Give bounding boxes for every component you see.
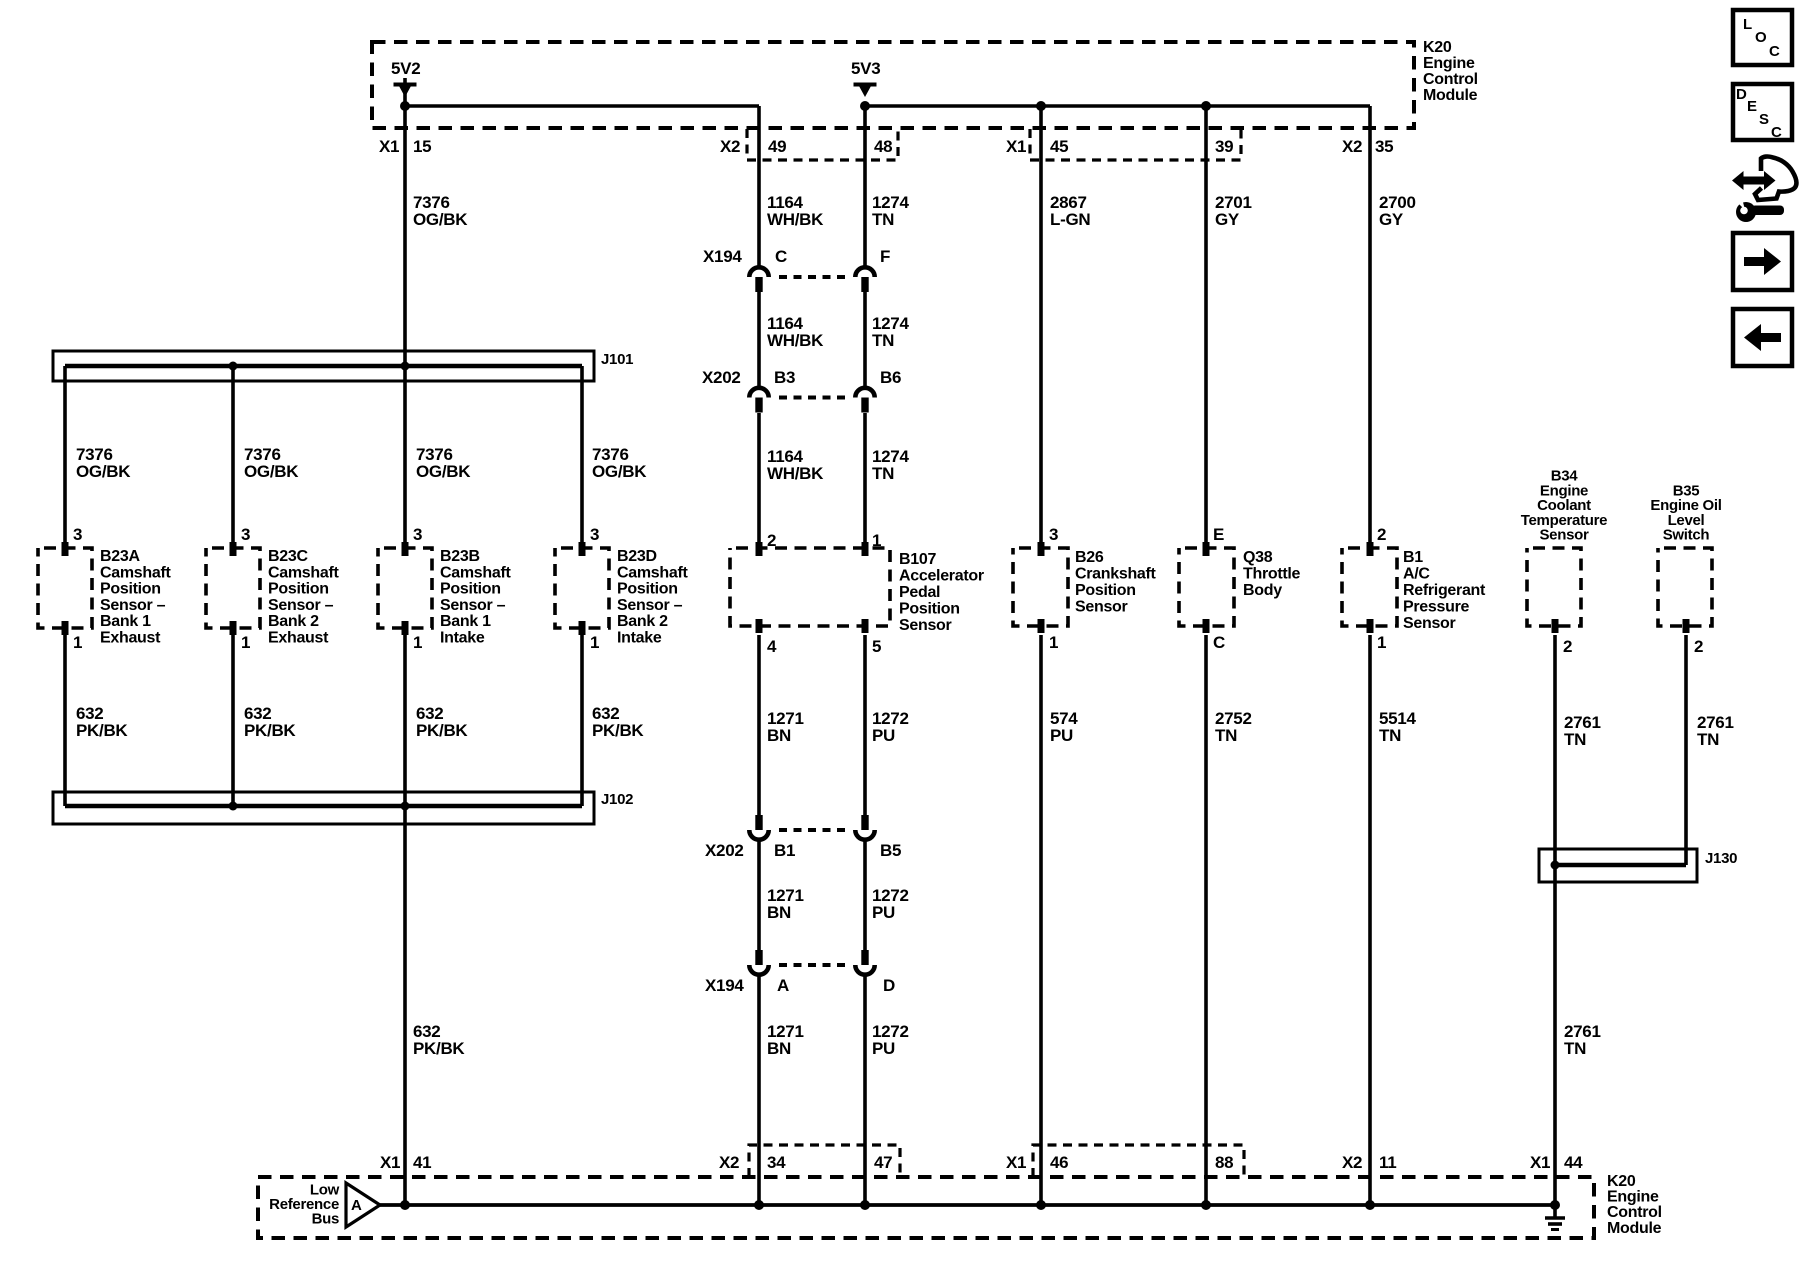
svg-text:PU: PU [1050,726,1073,745]
camshaft position sensor B23C [206,548,260,628]
engine oil level switch B35 [1658,548,1712,626]
5V3 reference supply symbol [854,85,877,98]
splice J130 [1539,849,1697,882]
splice pack J101 [53,351,594,381]
svg-text:BN: BN [767,903,791,922]
wire 2700 GY pin35 to B1 [1368,106,1372,542]
svg-text:B5: B5 [880,841,901,860]
wire label 1271 BN (2) [767,886,804,922]
icon box DESC [1733,84,1792,141]
svg-text:Position: Position [1075,582,1136,599]
label B23D [617,548,688,647]
wire label 1271 BN (3) [767,1022,804,1058]
wire 5V2 bus to pin 49 [405,104,759,108]
svg-text:2: 2 [1694,637,1703,656]
wire 1274 TN X202-B6 to B107 pin1 [863,413,867,542]
svg-text:X1: X1 [379,137,399,156]
svg-text:88: 88 [1215,1153,1233,1172]
wire label 1164 WH/BK (2) [767,314,824,350]
wire 574 PU B26 to pin46 [1039,635,1043,1205]
junction bus x=759 [754,1200,764,1210]
svg-text:X2: X2 [1342,137,1362,156]
label K20 Engine Control Module (bottom) [1607,1173,1662,1237]
svg-text:A: A [351,1197,362,1214]
svg-text:X2: X2 [720,137,740,156]
svg-text:K20: K20 [1607,1173,1636,1190]
ECM module K20 bottom dashed box [258,1177,1594,1238]
wire label 632 PK/BK col x=416 [416,704,468,740]
svg-text:B1: B1 [1403,549,1423,566]
junction 5V2/pin15 [400,101,410,111]
wire 1271 BN B107 pin4 to X202-B1 [757,635,761,815]
camshaft position sensor B23B [378,548,432,628]
svg-text:1: 1 [590,633,599,652]
svg-text:C: C [1771,124,1782,141]
svg-text:Sensor: Sensor [899,617,952,634]
svg-text:Sensor –: Sensor – [617,597,683,614]
svg-text:Pressure: Pressure [1403,599,1469,616]
svg-text:39: 39 [1215,137,1233,156]
inline connector X194 pin A [749,950,768,975]
wire label 7376 OG/BK col x=416 [416,445,471,481]
svg-text:X1: X1 [1006,137,1026,156]
wire label 574 PU [1050,709,1078,745]
svg-text:45: 45 [1050,137,1068,156]
wire label 1164 WH/BK (1) [767,193,824,229]
svg-text:OG/BK: OG/BK [76,462,131,481]
wire 1274 TN pin48 to X194-F [863,106,867,266]
svg-text:Sensor –: Sensor – [440,597,506,614]
label B26 [1075,549,1157,616]
svg-text:Accelerator: Accelerator [899,568,984,585]
svg-text:Sensor –: Sensor – [268,597,334,614]
svg-text:4: 4 [767,637,777,656]
wire label 632 PK/BK col x=244 [244,704,296,740]
wire label 1274 TN (1) [872,193,909,229]
svg-text:Intake: Intake [440,630,485,647]
svg-text:B23D: B23D [617,548,657,565]
svg-text:1: 1 [1049,633,1058,652]
svg-text:B23B: B23B [440,548,480,565]
svg-text:PK/BK: PK/BK [592,721,644,740]
connector pocket X2 pins 49-48 (top) [747,129,898,160]
wire 2701 GY pin39 to Q38 [1204,106,1208,542]
svg-text:5V3: 5V3 [851,59,880,78]
wire label 7376 OG/BK col x=76 [76,445,131,481]
A/C refrigerant pressure sensor B1 [1342,548,1397,626]
svg-text:S: S [1759,111,1769,128]
svg-text:Engine: Engine [1607,1189,1659,1206]
svg-text:TN: TN [1564,730,1586,749]
svg-text:Engine: Engine [1423,55,1475,72]
svg-text:Position: Position [100,581,161,598]
wire label 2700 GY [1379,193,1416,229]
svg-text:3: 3 [590,525,599,544]
ECM module K20 top dashed box [372,42,1414,128]
svg-text:B107: B107 [899,551,936,568]
junction J102/B23C wire [229,802,238,811]
svg-text:D: D [883,976,895,995]
svg-text:OG/BK: OG/BK [592,462,647,481]
svg-text:Position: Position [440,581,501,598]
svg-text:1: 1 [73,633,82,652]
svg-text:Camshaft: Camshaft [268,564,339,581]
svg-text:PK/BK: PK/BK [76,721,128,740]
junction bus x=1555 [1550,1200,1560,1210]
label Q38 [1243,549,1301,599]
svg-text:Position: Position [617,581,678,598]
svg-text:WH/BK: WH/BK [767,210,824,229]
svg-text:E: E [1213,525,1224,544]
icon box LOC [1733,10,1792,65]
svg-text:44: 44 [1564,1153,1583,1172]
svg-text:PU: PU [872,1039,895,1058]
svg-text:TN: TN [1215,726,1237,745]
junction J102/B23B wire [401,802,410,811]
svg-text:J130: J130 [1705,850,1737,867]
label K20 Engine Control Module (top) [1423,39,1478,104]
svg-text:J102: J102 [601,791,633,808]
junction bus x=1041 [1036,1200,1046,1210]
svg-text:Switch: Switch [1663,527,1710,544]
svg-text:TN: TN [872,210,894,229]
svg-text:WH/BK: WH/BK [767,331,824,350]
svg-text:K20: K20 [1423,39,1452,56]
wire 2752 TN Q38 to pin88 [1204,635,1208,1205]
svg-text:GY: GY [1379,210,1404,229]
wire 2761 TN B34 to J130 to pin44 [1553,635,1557,1205]
inline connector X202 pin B1 [749,815,768,840]
wire label 632 PK/BK col x=592 [592,704,644,740]
svg-text:TN: TN [1379,726,1401,745]
wire 1164 WH/BK X194-C to X202-B3 [757,292,761,387]
svg-text:OG/BK: OG/BK [416,462,471,481]
svg-text:O: O [1755,29,1767,46]
svg-text:A/C: A/C [1403,566,1430,583]
wire 1274 TN X194-F to X202-B6 [863,292,867,387]
wire label 1272 PU (3) [872,1022,909,1058]
svg-text:Bank 1: Bank 1 [100,613,151,630]
wire 7376 OG/BK J101 to B23D [580,366,584,542]
svg-text:3: 3 [1049,525,1058,544]
svg-text:Control: Control [1607,1204,1662,1221]
svg-text:X194: X194 [703,247,742,266]
svg-text:OG/BK: OG/BK [244,462,299,481]
junction bus x=1370 [1365,1200,1375,1210]
svg-text:1: 1 [872,531,881,550]
svg-text:Sensor –: Sensor – [100,597,166,614]
svg-text:X202: X202 [702,368,741,387]
wire label 1164 WH/BK (3) [767,447,824,483]
inline connector X202 pin B3 [749,388,768,413]
svg-text:Exhaust: Exhaust [268,630,329,647]
svg-text:X194: X194 [705,976,744,995]
svg-text:5V2: 5V2 [391,59,420,78]
low reference bus node A triangle [346,1183,380,1227]
svg-text:Module: Module [1423,87,1478,104]
svg-text:B6: B6 [880,368,901,387]
icon box forward arrow [1733,233,1792,290]
svg-text:X202: X202 [705,841,744,860]
svg-text:F: F [880,247,890,266]
svg-text:B26: B26 [1075,549,1104,566]
svg-text:1: 1 [241,633,250,652]
svg-text:B23A: B23A [100,548,140,565]
junction bus x=405 [400,1200,410,1210]
wire 7376 OG/BK J101 to B23A [63,366,67,542]
svg-text:Position: Position [268,581,329,598]
junction 5V3/pin48 [860,101,870,111]
svg-text:Refrigerant: Refrigerant [1403,582,1486,599]
wire label 2761 TN (J130 out) [1564,1022,1601,1058]
label B34 [1521,468,1607,544]
svg-text:TN: TN [872,331,894,350]
wire label 7376 OG/BK col x=244 [244,445,299,481]
svg-text:3: 3 [73,525,82,544]
svg-text:PK/BK: PK/BK [244,721,296,740]
svg-text:Module: Module [1607,1220,1662,1237]
inline connector X202 pin B5 [855,815,874,840]
connector pocket X1 pins 46-88 (bottom) [1033,1145,1244,1177]
svg-text:D: D [1736,86,1747,103]
junction J130/B34 wire [1551,861,1560,870]
svg-text:Body: Body [1243,582,1282,599]
wire 1164 WH/BK X202-B3 to B107 pin2 [757,413,761,542]
svg-text:X1: X1 [1006,1153,1026,1172]
wire 5V3 bus to pins 45/39/35 [865,104,1370,108]
svg-text:X2: X2 [1342,1153,1362,1172]
svg-text:Bus: Bus [312,1211,339,1228]
wire label 2867 L-GN [1050,193,1090,229]
svg-text:TN: TN [872,464,894,483]
inline connector X194 pin D [855,950,874,975]
wire 632 PK/BK B23B to J102 to pin41 [403,635,407,1205]
wire 1272 PU X202-B5 to X194-D [863,842,867,951]
wire 2867 L-GN pin45 to B26 [1039,106,1043,542]
wire label 1272 PU (1) [872,709,909,745]
svg-text:41: 41 [413,1153,431,1172]
svg-text:47: 47 [874,1153,892,1172]
svg-text:Camshaft: Camshaft [440,564,511,581]
wire label 2761 TN (B34) [1564,713,1601,749]
camshaft position sensor B23A [38,548,92,628]
svg-text:Sensor: Sensor [1403,615,1456,632]
svg-text:Sensor: Sensor [1075,599,1128,616]
wire 7376 OG/BK J101 to B23C [231,366,235,542]
wire 1271 BN X202-B1 to X194-A [757,842,761,951]
wire label 1274 TN (3) [872,447,909,483]
svg-text:Control: Control [1423,71,1478,88]
svg-text:11: 11 [1379,1153,1396,1172]
svg-text:Q38: Q38 [1243,549,1273,566]
pin labels ECM top row [379,137,1393,156]
svg-text:TN: TN [1564,1039,1586,1058]
label B1 [1403,549,1486,632]
svg-text:5: 5 [872,637,881,656]
svg-text:2: 2 [1563,637,1572,656]
crankshaft position sensor B26 [1013,548,1068,626]
connector link dash X194 A-D [779,963,851,967]
svg-text:X1: X1 [380,1153,400,1172]
svg-text:Pedal: Pedal [899,584,940,601]
svg-text:Intake: Intake [617,630,662,647]
junction pin39 [1201,101,1211,111]
svg-text:A: A [777,976,789,995]
wire label 2761 TN (B35) [1697,713,1734,749]
junction J101/B23C wire [229,362,238,371]
svg-text:Throttle: Throttle [1243,566,1301,583]
wire label 1274 TN (2) [872,314,909,350]
svg-text:PU: PU [872,903,895,922]
connector pocket X2 pins 34-47 (bottom) [749,1145,900,1177]
svg-text:PK/BK: PK/BK [416,721,468,740]
svg-text:1: 1 [1377,633,1386,652]
svg-text:X1: X1 [1530,1153,1550,1172]
svg-text:J101: J101 [601,351,633,368]
engine coolant temperature sensor B34 [1527,548,1581,626]
svg-text:B3: B3 [774,368,795,387]
wire 2761 TN B35 to J130 [1684,635,1688,865]
svg-text:49: 49 [768,137,786,156]
svg-text:Sensor: Sensor [1539,527,1589,544]
junction bus x=865 [860,1200,870,1210]
wire label 7376 OG/BK col x=592 [592,445,647,481]
junction bus x=1206 [1201,1200,1211,1210]
inline connector X202 pin B6 [855,388,874,413]
wire label 632 PK/BK col x=76 [76,704,128,740]
svg-text:BN: BN [767,1039,791,1058]
connector pocket X1 pins 45-39 (top) [1030,129,1241,160]
ground symbol at pin 44 [1545,1205,1565,1230]
connector link dash X202 B3-B6 [779,396,851,400]
wire 632 PK/BK B23D to J102 [580,635,584,806]
svg-text:1: 1 [413,633,422,652]
wire label 5514 TN [1379,709,1416,745]
svg-text:Bank 2: Bank 2 [268,613,319,630]
svg-text:35: 35 [1375,137,1393,156]
svg-text:46: 46 [1050,1153,1068,1172]
svg-text:L: L [1743,16,1752,33]
svg-text:2: 2 [1377,525,1386,544]
svg-text:L-GN: L-GN [1050,210,1090,229]
svg-text:B1: B1 [774,841,795,860]
icon double-arrow with wrench (navigation glyph) [1732,157,1796,222]
svg-text:3: 3 [413,525,422,544]
label B35 [1650,482,1721,543]
svg-text:15: 15 [413,137,431,156]
junction pin45 [1036,101,1046,111]
connector link dash X194 C-F [779,275,851,279]
wire 1164 WH/BK pin49 to X194-C [757,106,761,266]
svg-text:Bank 2: Bank 2 [617,613,668,630]
label B23C [268,548,339,647]
svg-text:C: C [775,247,787,266]
svg-text:B23C: B23C [268,548,308,565]
wire label 1271 BN (1) [767,709,804,745]
low reference bus wire [380,1203,1555,1207]
svg-text:2: 2 [767,531,776,550]
svg-text:34: 34 [767,1153,786,1172]
svg-text:C: C [1769,43,1780,60]
svg-text:GY: GY [1215,210,1240,229]
wire 1272 PU B107 pin5 to X202-B5 [863,635,867,815]
svg-text:Crankshaft: Crankshaft [1075,566,1157,583]
wire label 632 PK/BK (bottom) [413,1022,465,1058]
svg-text:3: 3 [241,525,250,544]
wire label 2752 TN [1215,709,1252,745]
wire 632 PK/BK B23C to J102 [231,635,235,806]
svg-text:PU: PU [872,726,895,745]
wire label 7376 OG/BK (top) [413,193,468,229]
wire label 1272 PU (2) [872,886,909,922]
wire 632 PK/BK B23A to J102 [63,635,67,806]
wire 7376 OG/BK pin15 to J101 to B23B [403,78,407,542]
label Low Reference Bus [269,1182,339,1228]
label B23A [100,548,171,647]
svg-text:X2: X2 [719,1153,739,1172]
junction J101/B23B wire [401,362,410,371]
svg-text:OG/BK: OG/BK [413,210,468,229]
svg-text:PK/BK: PK/BK [413,1039,465,1058]
icon box back arrow [1733,309,1792,366]
svg-text:E: E [1747,98,1757,115]
svg-text:48: 48 [874,137,892,156]
svg-text:Bank 1: Bank 1 [440,613,491,630]
svg-text:Exhaust: Exhaust [100,630,161,647]
svg-text:C: C [1213,633,1225,652]
wire 1272 PU X194-D to pin47 [863,977,867,1206]
svg-text:Camshaft: Camshaft [100,564,171,581]
svg-text:Camshaft: Camshaft [617,564,688,581]
inline connector X194 pin C [749,267,768,292]
wire 5514 TN B1 to pin11 [1368,635,1372,1205]
5V2 reference supply symbol [394,85,417,98]
label B23B [440,548,511,647]
svg-text:BN: BN [767,726,791,745]
svg-text:TN: TN [1697,730,1719,749]
pin labels ECM bottom row [380,1153,1583,1172]
svg-text:WH/BK: WH/BK [767,464,824,483]
camshaft position sensor B23D [555,548,609,628]
wire label 2701 GY [1215,193,1252,229]
label B107 [899,551,984,634]
throttle body Q38 [1179,548,1234,626]
accelerator pedal position sensor B107 [730,548,890,626]
wire 1271 BN X194-A to pin34 [757,977,761,1206]
svg-text:Position: Position [899,601,960,618]
connector link dash X202 B1-B5 [779,828,851,832]
splice pack J102 [53,792,594,824]
inline connector X194 pin F [855,267,874,292]
